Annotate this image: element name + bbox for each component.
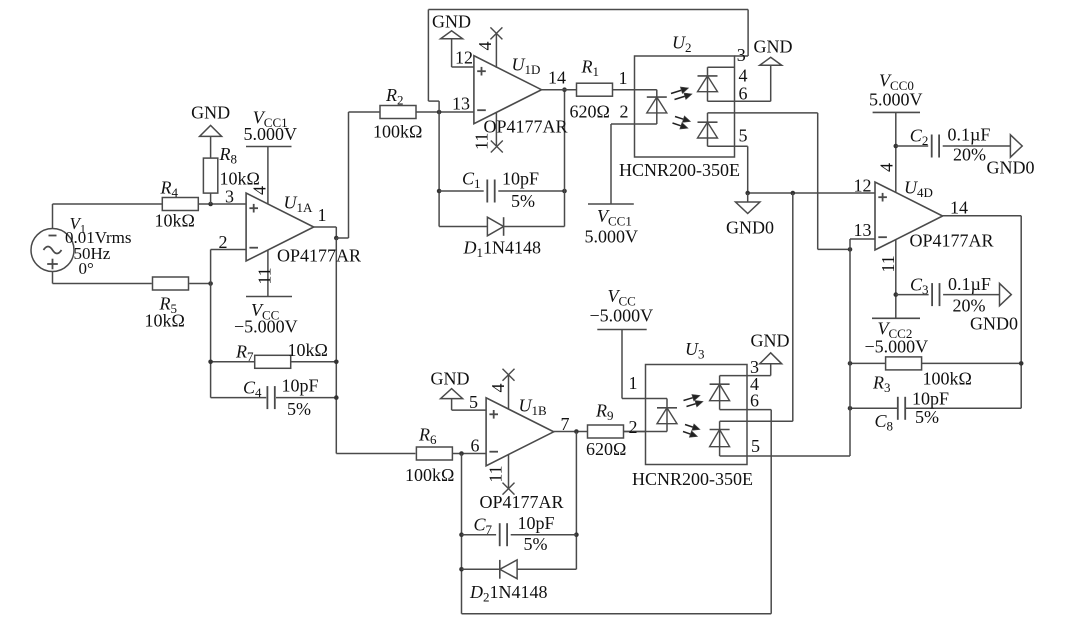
svg-text:4: 4 — [475, 42, 495, 51]
svg-text:5: 5 — [751, 436, 760, 456]
svg-text:10kΩ: 10kΩ — [288, 340, 328, 360]
svg-text:5%: 5% — [511, 191, 535, 211]
svg-text:4: 4 — [488, 384, 508, 393]
svg-text:11: 11 — [878, 255, 898, 272]
svg-text:10pF: 10pF — [282, 376, 319, 396]
svg-text:10kΩ: 10kΩ — [155, 211, 195, 231]
svg-text:−5.000V: −5.000V — [234, 317, 298, 337]
svg-text:2: 2 — [629, 417, 638, 437]
svg-text:11: 11 — [255, 267, 275, 284]
svg-text:100kΩ: 100kΩ — [405, 465, 454, 485]
svg-text:0.1µF: 0.1µF — [948, 274, 991, 294]
svg-text:11: 11 — [486, 465, 506, 482]
svg-text:100kΩ: 100kΩ — [373, 122, 422, 142]
svg-text:13: 13 — [452, 94, 470, 114]
svg-text:2: 2 — [620, 102, 629, 122]
svg-text:7: 7 — [561, 414, 570, 434]
svg-text:GND: GND — [754, 37, 793, 57]
svg-text:−5.000V: −5.000V — [865, 337, 929, 357]
svg-text:1: 1 — [619, 68, 628, 88]
svg-text:D11N4148: D11N4148 — [463, 238, 542, 261]
svg-text:GND: GND — [431, 369, 470, 389]
svg-text:1: 1 — [318, 205, 327, 225]
svg-text:OP4177AR: OP4177AR — [910, 231, 994, 251]
svg-text:10pF: 10pF — [502, 169, 539, 189]
svg-text:13: 13 — [854, 220, 872, 240]
svg-text:3: 3 — [737, 45, 746, 65]
svg-text:0.1µF: 0.1µF — [948, 125, 991, 145]
svg-text:12: 12 — [854, 176, 872, 196]
svg-text:620Ω: 620Ω — [570, 102, 610, 122]
svg-text:10pF: 10pF — [518, 513, 555, 533]
svg-text:6: 6 — [750, 391, 759, 411]
svg-text:14: 14 — [950, 198, 968, 218]
svg-text:100kΩ: 100kΩ — [923, 369, 972, 389]
svg-text:GND0: GND0 — [987, 158, 1035, 178]
svg-text:1: 1 — [629, 373, 638, 393]
svg-text:4: 4 — [877, 163, 897, 172]
svg-text:GND0: GND0 — [726, 218, 774, 238]
svg-text:12: 12 — [455, 48, 473, 68]
svg-text:OP4177AR: OP4177AR — [484, 117, 568, 137]
svg-text:5.000V: 5.000V — [869, 90, 923, 110]
svg-text:10kΩ: 10kΩ — [145, 311, 185, 331]
svg-text:5.000V: 5.000V — [244, 124, 298, 144]
svg-text:4: 4 — [250, 186, 270, 195]
svg-text:620Ω: 620Ω — [586, 439, 626, 459]
svg-text:GND: GND — [432, 12, 471, 32]
svg-text:20%: 20% — [953, 296, 986, 316]
svg-text:5%: 5% — [287, 399, 311, 419]
svg-text:0°: 0° — [79, 259, 94, 278]
svg-text:5: 5 — [739, 126, 748, 146]
svg-text:11: 11 — [472, 133, 492, 150]
svg-text:GND0: GND0 — [970, 314, 1018, 334]
svg-text:OP4177AR: OP4177AR — [480, 492, 564, 512]
svg-text:14: 14 — [548, 68, 566, 88]
svg-text:HCNR200-350E: HCNR200-350E — [619, 160, 740, 180]
svg-text:10pF: 10pF — [912, 389, 949, 409]
svg-text:5%: 5% — [524, 534, 548, 554]
svg-text:2: 2 — [219, 232, 228, 252]
svg-text:10kΩ: 10kΩ — [220, 169, 260, 189]
svg-text:3: 3 — [225, 187, 234, 207]
svg-text:4: 4 — [739, 66, 748, 86]
svg-text:D21N4148: D21N4148 — [469, 582, 548, 605]
svg-text:5: 5 — [469, 392, 478, 412]
svg-text:5%: 5% — [915, 407, 939, 427]
svg-text:6: 6 — [739, 84, 748, 104]
svg-text:6: 6 — [471, 436, 480, 456]
svg-text:−5.000V: −5.000V — [590, 306, 654, 326]
svg-text:OP4177AR: OP4177AR — [277, 246, 361, 266]
svg-text:GND: GND — [191, 103, 230, 123]
svg-text:HCNR200-350E: HCNR200-350E — [632, 469, 753, 489]
svg-text:GND: GND — [751, 331, 790, 351]
svg-text:20%: 20% — [953, 145, 986, 165]
svg-text:5.000V: 5.000V — [585, 227, 639, 247]
